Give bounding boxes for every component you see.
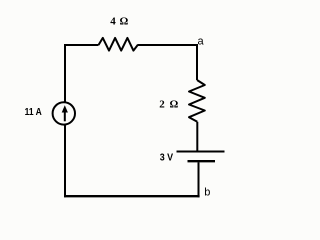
wire: top horizontal left segment [64,44,99,46]
wire: left vertical lower segment [64,125,66,198]
battery V1 negative short plate [188,160,216,162]
wire: right vertical middle segment (resistor to battery) [196,122,198,151]
current source I1 arrow shaft [64,111,66,122]
svg-text:2 Ω: 2 Ω [159,99,179,111]
svg-text:3 V: 3 V [160,152,174,164]
resistor R1 4 ohm (horizontal zigzag) [99,38,138,51]
svg-text:a: a [198,36,205,48]
svg-text:11 A: 11 A [25,106,42,118]
wire: right vertical top segment [196,44,198,80]
wire: right vertical bottom segment (battery to bottom wire) [198,162,200,197]
wire: bottom horizontal segment [64,195,200,197]
wire: top horizontal right segment [137,44,197,46]
resistor R2 2 ohm (vertical zigzag) [189,80,205,122]
current source I1 circle [53,102,75,124]
wire: left vertical upper segment [64,44,66,103]
svg-text:4 Ω: 4 Ω [110,16,129,28]
current source I1 arrowhead [62,105,68,112]
battery V1 positive long plate [177,151,225,153]
svg-text:b: b [204,187,210,199]
